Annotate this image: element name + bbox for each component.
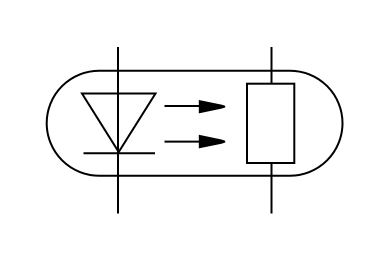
photoresistor bottom lead wire — [271, 163, 273, 214]
LED D1 anode triangle — [82, 94, 156, 153]
photoresistor top lead wire — [271, 47, 273, 84]
cathode wire (bottom-left vertical lead) — [117, 153, 119, 213]
light transfer arrow upper shaft — [165, 105, 202, 107]
light transfer arrow lower shaft — [165, 141, 202, 143]
optocoupler package outline (stadium) — [47, 71, 343, 176]
light transfer arrow upper head — [199, 100, 225, 113]
photoresistor body R1 — [247, 84, 294, 163]
light transfer arrow lower head — [199, 135, 225, 149]
LED D1 cathode bar — [84, 152, 156, 154]
anode wire (top-left vertical lead) — [117, 47, 119, 153]
